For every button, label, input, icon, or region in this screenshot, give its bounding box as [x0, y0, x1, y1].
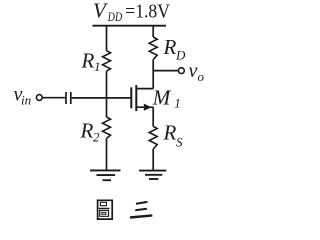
channel bar: [135, 85, 137, 111]
label M1: [152, 86, 181, 111]
label VDD = 1.8V: [93, 0, 170, 24]
wire RD to drain: [152, 60, 154, 89]
source arrow: [144, 104, 152, 111]
svg-text:R: R: [163, 121, 177, 145]
svg-text:S: S: [176, 134, 183, 149]
gate bar: [130, 87, 132, 108]
transistor M1: [131, 85, 153, 111]
caption 圖: [98, 200, 113, 219]
wire rail to RD: [152, 26, 154, 37]
svg-text:DD: DD: [107, 9, 123, 24]
wire R1 to gate node: [106, 71, 108, 117]
capacitor C: [66, 92, 71, 104]
ground left: [90, 170, 121, 180]
VDD rail: [93, 25, 167, 27]
svg-text:1: 1: [174, 95, 181, 110]
svg-text:R: R: [81, 49, 95, 73]
resistor RS: [149, 126, 157, 149]
svg-text:1: 1: [94, 59, 101, 74]
wire source to RS: [152, 107, 154, 126]
svg-text:=1.8V: =1.8V: [125, 0, 170, 22]
caption 三: [130, 202, 152, 218]
ground right: [139, 171, 166, 179]
label R1: [81, 49, 101, 74]
label R2: [80, 119, 101, 145]
resistor RD: [149, 37, 157, 60]
drain lead: [136, 88, 153, 90]
wire capacitor to gate: [72, 97, 131, 99]
wire rail to R1: [106, 26, 108, 51]
wire R2 to ground: [106, 138, 108, 170]
svg-text:R: R: [163, 35, 177, 59]
source lead: [136, 106, 153, 108]
svg-text:in: in: [21, 92, 31, 107]
wire RS to ground: [152, 149, 154, 171]
label RS: [163, 121, 184, 150]
svg-text:o: o: [198, 69, 205, 84]
svg-text:2: 2: [93, 129, 100, 144]
label vin: [14, 83, 32, 107]
resistor R2: [103, 117, 111, 138]
terminal vin: [36, 95, 42, 101]
svg-text:M: M: [152, 86, 172, 110]
wire vin to capacitor: [42, 97, 65, 99]
svg-text:D: D: [175, 47, 186, 62]
svg-text:v: v: [189, 60, 198, 82]
terminal vo: [179, 68, 185, 74]
label RD: [163, 35, 187, 62]
label vo: [189, 60, 205, 84]
svg-text:V: V: [93, 0, 108, 22]
svg-text:R: R: [80, 119, 94, 143]
wire output tap: [153, 70, 178, 72]
resistor R1: [103, 51, 111, 72]
